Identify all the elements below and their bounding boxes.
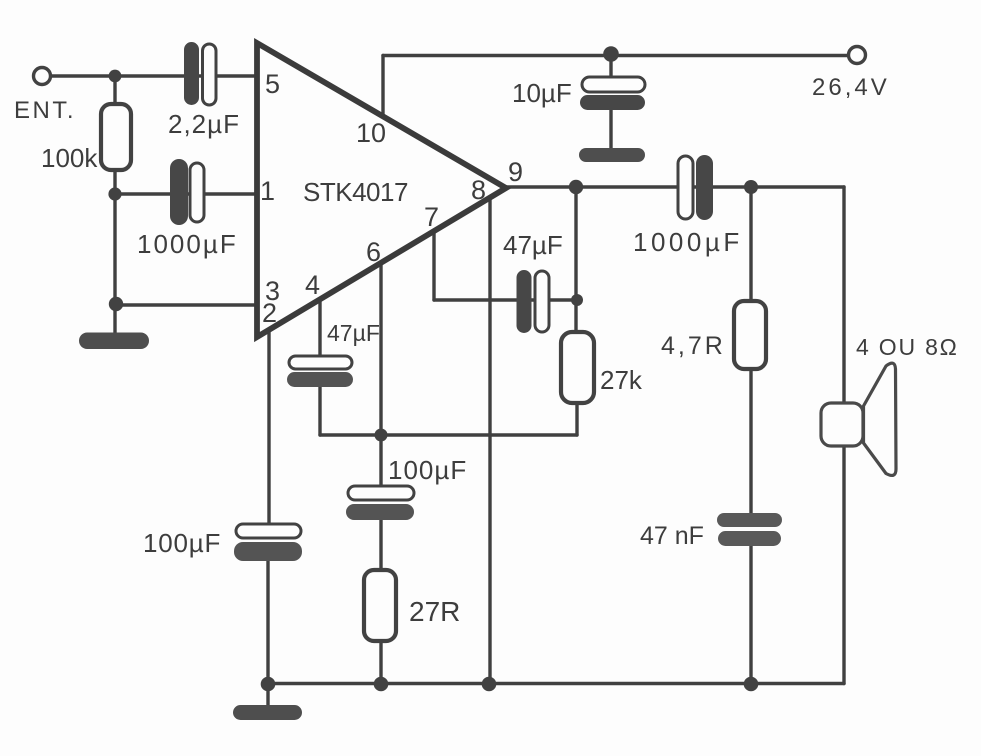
svg-text:47µF: 47µF (327, 320, 380, 346)
svg-text:47 nF: 47 nF (640, 522, 704, 550)
svg-text:7: 7 (424, 202, 439, 232)
svg-text:4: 4 (305, 270, 320, 300)
svg-text:9: 9 (508, 157, 523, 187)
svg-text:ENT.: ENT. (14, 97, 76, 124)
svg-text:2: 2 (262, 298, 277, 328)
svg-text:100µF: 100µF (143, 528, 221, 558)
svg-text:5: 5 (265, 69, 280, 99)
svg-text:8: 8 (471, 175, 486, 205)
svg-text:4 OU 8Ω: 4 OU 8Ω (856, 334, 959, 360)
svg-text:26,4V: 26,4V (812, 74, 890, 101)
svg-text:2,2µF: 2,2µF (168, 109, 240, 139)
svg-text:1000µF: 1000µF (633, 227, 743, 257)
svg-text:6: 6 (366, 237, 381, 267)
svg-text:100µF: 100µF (388, 455, 467, 485)
svg-text:4,7R: 4,7R (661, 332, 726, 360)
svg-text:47µF: 47µF (503, 230, 563, 260)
svg-text:1000µF: 1000µF (137, 229, 238, 259)
svg-text:10µF: 10µF (512, 78, 572, 108)
svg-text:STK4017: STK4017 (303, 177, 408, 207)
svg-text:27R: 27R (409, 596, 460, 627)
svg-text:100k: 100k (41, 143, 98, 173)
svg-text:1: 1 (260, 176, 275, 206)
svg-text:10: 10 (356, 118, 386, 148)
svg-text:27k: 27k (600, 365, 643, 395)
